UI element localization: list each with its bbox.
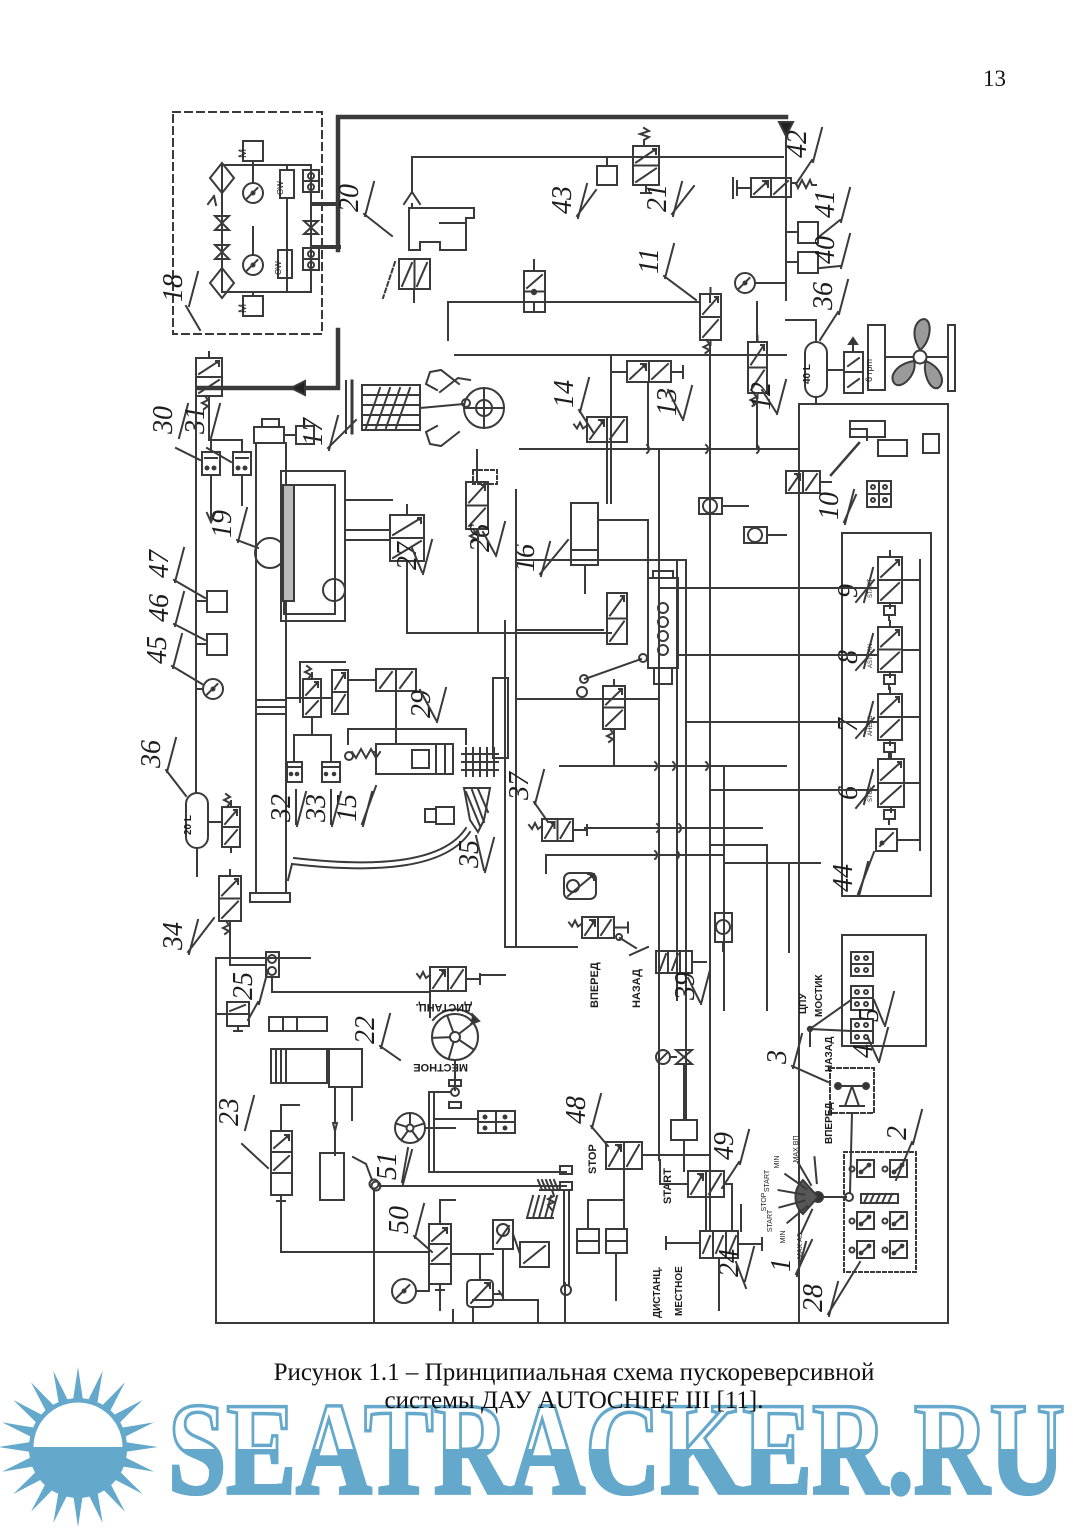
panel 2 switch r1c2 <box>890 1160 907 1177</box>
valve 29b <box>332 670 348 714</box>
solenoid 32 <box>287 762 302 782</box>
svg-text:32: 32 <box>266 794 297 823</box>
handwheel 51 rim <box>395 1113 425 1143</box>
cylinder 19 top cap <box>254 427 284 443</box>
valve column right link <box>919 560 921 850</box>
machine 17 rocker <box>440 378 470 392</box>
handwheel 22 arrow arc <box>433 1009 476 1020</box>
svg-text:21: 21 <box>642 184 673 212</box>
actuator 39 lever <box>620 938 636 948</box>
svg-text:43: 43 <box>547 186 578 214</box>
valve 27 <box>390 515 424 561</box>
valve 23 <box>271 1131 292 1195</box>
wire 27 down <box>407 572 478 633</box>
wire long y355 <box>455 354 786 356</box>
panel 2 switch r2c2 <box>890 1212 907 1229</box>
svg-text:6: 6 <box>833 786 864 800</box>
propeller blade left-bottom <box>892 361 914 385</box>
tachometer transmitter <box>844 352 863 393</box>
machine 17 link rod <box>420 404 464 408</box>
wire 27 to positioner <box>345 529 390 531</box>
bridge box bottom <box>851 1019 873 1043</box>
valve 24 plunger <box>738 1243 762 1245</box>
wire 11 down to bus <box>709 345 711 449</box>
bus vertical x516 <box>515 490 517 947</box>
solenoid 33 <box>322 762 340 782</box>
valve 9 actuator <box>884 606 895 615</box>
spring right of 42 <box>791 180 816 188</box>
wire 30 down arrow <box>210 475 212 520</box>
valve 34 <box>219 876 241 921</box>
actuator 39 body <box>656 951 692 973</box>
svg-text:11: 11 <box>634 248 665 274</box>
starter down rods <box>334 1087 336 1123</box>
cylinder 19 sphere <box>255 538 285 568</box>
linkage rod horizontal <box>429 1171 566 1173</box>
lever 3 dashed box <box>830 1068 874 1113</box>
pilot symbol valve 20 <box>404 192 420 204</box>
cylinder 19 body <box>256 443 286 893</box>
pressure gauge 45 <box>203 679 223 699</box>
thick branch lower left with arrow <box>199 330 338 388</box>
bus vertical x659 <box>658 449 660 1160</box>
valve 21 <box>633 146 659 185</box>
pressure gauge bottom <box>392 1279 416 1303</box>
linkage rod bottom ball <box>561 1285 571 1295</box>
lever 3 shaft down <box>850 1113 852 1193</box>
panel 2 switch r3c1 <box>857 1241 874 1258</box>
starter gear box <box>329 1049 362 1087</box>
machine 17 jaw lower <box>426 426 459 446</box>
starter pinion bar <box>269 1017 327 1031</box>
thick supply line top run <box>338 117 786 250</box>
arrowhead left on branch <box>291 381 305 395</box>
valve 12 <box>748 342 767 393</box>
machine 17 jaw upper <box>426 370 459 390</box>
svg-text:6 rpm: 6 rpm <box>864 359 874 382</box>
svg-text:23: 23 <box>214 1098 245 1126</box>
svg-text:ВПЕРЕД: ВПЕРЕД <box>589 962 601 1008</box>
cylinder 19 top knob <box>262 419 279 427</box>
svg-text:44: 44 <box>828 864 859 892</box>
bus horizontal y863 right <box>724 862 820 864</box>
wire 13 stem <box>647 382 649 449</box>
wire 16 right <box>598 519 648 521</box>
svg-text:40: 40 <box>810 236 841 264</box>
svg-text:19: 19 <box>207 510 238 538</box>
svg-text:34: 34 <box>158 922 189 951</box>
flow regulator <box>564 873 596 899</box>
wire 16 bottom <box>584 565 586 593</box>
panel 2 switch r2c1 <box>857 1212 874 1229</box>
valve 48 STOP <box>606 1142 642 1169</box>
ball valve cluster <box>493 1220 513 1249</box>
wire 29 up <box>299 662 301 702</box>
governor pilot valve upper <box>607 593 627 644</box>
lubricator lower <box>278 250 292 278</box>
svg-text:STOP: STOP <box>761 1192 768 1211</box>
linkage rod vertical right <box>563 1190 565 1285</box>
wire 29 frame <box>348 729 466 744</box>
bus vertical x686 <box>685 560 687 1120</box>
svg-text:47: 47 <box>144 549 175 578</box>
wire gauge link <box>416 1290 429 1292</box>
wheel 22 stem collar <box>449 1080 461 1086</box>
positioner inner <box>284 485 335 614</box>
wire junction block left <box>435 1118 478 1120</box>
svg-text:48: 48 <box>561 1096 592 1124</box>
wire 23 bottom <box>280 1201 282 1215</box>
bus jog y766 <box>655 762 708 770</box>
wire top distribution y157 <box>412 156 783 158</box>
svg-text:36: 36 <box>136 740 167 769</box>
handwheel 22 hub <box>450 1032 460 1042</box>
valve 6 <box>878 759 904 807</box>
svg-text:7: 7 <box>833 717 864 732</box>
svg-text:ДИСТАНЦ.: ДИСТАНЦ. <box>652 1266 663 1318</box>
svg-text:45: 45 <box>142 636 173 664</box>
svg-text:OW: OW <box>274 261 283 275</box>
filter diamond lower <box>210 268 234 298</box>
wire 12 down <box>756 398 758 449</box>
wire rpm to prop <box>885 356 913 358</box>
svg-text:МЕСТНОЕ: МЕСТНОЕ <box>674 1266 685 1316</box>
capsule check x744 <box>744 527 767 543</box>
injector 35 funnel <box>464 788 490 832</box>
svg-text:ЦПУ: ЦПУ <box>798 993 809 1014</box>
watermark lettering <box>168 1375 1065 1522</box>
governor pump body <box>648 578 678 668</box>
wire 14 bottom <box>606 442 608 503</box>
machine 17 guide plate <box>351 381 354 433</box>
pressure regulator bottom <box>467 1280 493 1307</box>
wire valve-b link <box>482 974 505 976</box>
svg-text:9: 9 <box>833 584 864 598</box>
box 29 <box>376 669 416 691</box>
solenoid box 30 <box>202 452 220 475</box>
filter diamond upper <box>210 163 234 193</box>
injector pipe curve inner <box>294 828 466 862</box>
svg-text:40 L: 40 L <box>802 364 813 384</box>
svg-text:20: 20 <box>334 184 365 212</box>
wire 49 links <box>705 1197 707 1231</box>
wire into valve 50 left <box>280 1209 282 1252</box>
governor pump elements <box>658 603 668 613</box>
starter lever <box>353 1157 372 1180</box>
injector pipe curve outer <box>292 832 470 868</box>
svg-text:41: 41 <box>810 190 841 218</box>
box 47 <box>207 591 227 612</box>
valve 49 START <box>688 1171 724 1197</box>
wire 48 box <box>683 1140 685 1171</box>
svg-text:10: 10 <box>814 492 845 520</box>
thick stub to check valves upper <box>313 202 339 206</box>
bus vertical x505 <box>504 621 506 947</box>
panel 2 dotted frame <box>844 1152 916 1272</box>
solenoid box 31 <box>233 452 251 475</box>
wire 11 up <box>709 294 711 302</box>
motor box M top <box>243 141 263 161</box>
handwheel 51 hub <box>407 1125 414 1132</box>
svg-text:16: 16 <box>510 544 541 572</box>
svg-text:ВПЕРЕД: ВПЕРЕД <box>824 1102 835 1144</box>
remote control box frame <box>842 533 931 896</box>
wire x659 lower <box>658 1000 660 1050</box>
thick stub to check valves lower <box>313 245 339 249</box>
wire 48 right to bus <box>642 1154 710 1156</box>
machine 17 camshaft circle <box>464 388 504 428</box>
svg-text:30: 30 <box>148 406 179 435</box>
wheel 22 stem joint <box>451 1088 459 1096</box>
supply arrowhead down <box>779 122 793 136</box>
wall anchor hatch <box>540 1189 558 1191</box>
drain arrow <box>208 196 216 205</box>
svg-text:46: 46 <box>144 594 175 622</box>
rpm indicator box <box>868 325 885 390</box>
valve 29a <box>303 679 321 717</box>
shaft bracket plate <box>948 325 955 391</box>
box above 48 <box>671 1120 697 1140</box>
svg-text:M: M <box>237 304 249 313</box>
spring comb <box>527 1196 533 1218</box>
svg-text:MIN: MIN <box>774 1156 781 1169</box>
bus horizontal y845 right <box>710 844 767 846</box>
injector 35 stem <box>425 809 436 822</box>
console 1 sector <box>795 1180 818 1214</box>
dotted box above 26 <box>473 470 497 484</box>
capsule check x715 <box>715 913 732 942</box>
dashed drain of 20 <box>383 262 395 298</box>
actuator stem left of 42 <box>737 187 751 189</box>
wire boxes48 down <box>615 1253 617 1300</box>
bus jog y855 <box>655 851 679 859</box>
box 40 <box>798 252 818 273</box>
svg-text:49: 49 <box>709 1132 740 1160</box>
governor hub <box>577 687 587 697</box>
wire split to 30 31 <box>209 439 242 441</box>
svg-text:1: 1 <box>766 1258 797 1272</box>
exhaust T of 21 <box>645 185 647 193</box>
exhaust marks 13 <box>613 371 627 373</box>
bus horizontal y855 <box>546 854 722 856</box>
wire 12 up <box>756 302 758 342</box>
box 43 <box>597 166 617 185</box>
wire ball valve down <box>502 1249 504 1300</box>
bridge box top <box>851 952 873 976</box>
svg-text:НАЗАД: НАЗАД <box>824 1037 835 1072</box>
svg-text:51: 51 <box>372 1152 403 1180</box>
valve 11 <box>700 294 721 340</box>
svg-text:START: START <box>767 1209 774 1232</box>
svg-text:МОСТИК: МОСТИК <box>814 974 825 1017</box>
cylinder 19 side box <box>296 426 314 444</box>
wire caps links <box>722 505 748 507</box>
svg-text:14: 14 <box>549 380 580 408</box>
fuel pump 15 piston <box>412 750 429 768</box>
valve 38 <box>582 917 614 938</box>
svg-text:МЕСТНОЕ: МЕСТНОЕ <box>413 1061 468 1073</box>
svg-text:8: 8 <box>833 650 864 664</box>
bottom cluster wires <box>451 1253 493 1255</box>
svg-text:18: 18 <box>158 274 189 302</box>
governor pump foot <box>654 668 672 684</box>
valve 7 <box>878 694 902 740</box>
lubricator OW upper <box>280 170 294 198</box>
capsule check x699 <box>699 498 722 514</box>
check valve pair upper <box>303 170 319 181</box>
positioner circle <box>323 579 345 601</box>
svg-text:START: START <box>764 1169 771 1192</box>
rod end fittings <box>560 1166 572 1174</box>
svg-text:OW: OW <box>276 181 285 195</box>
governor lower valve <box>603 686 625 729</box>
bus jog marks y449 <box>647 445 759 453</box>
throttle phi circle <box>656 1050 670 1064</box>
accumulator 20L <box>186 793 208 848</box>
valve 50 <box>429 1224 451 1284</box>
box 10b <box>878 440 907 456</box>
valve 24 manual rod <box>666 1242 700 1244</box>
lever 3 bar <box>836 1085 868 1087</box>
valve next to accumulator <box>222 807 240 847</box>
wire 23 up <box>280 1105 282 1131</box>
wheel 22 stem <box>454 1060 456 1090</box>
linkage rod vertical left <box>428 1092 430 1172</box>
bus jog y828 <box>657 824 681 832</box>
bus vertical x789 right <box>788 863 790 952</box>
propeller shaft <box>927 356 948 358</box>
wire 26 down then right <box>478 529 611 633</box>
bus horizontal y828 <box>585 827 762 829</box>
positioner wires <box>345 539 390 541</box>
panel 2 switch r1c1 <box>857 1160 874 1177</box>
bus vertical x724 <box>723 766 725 1010</box>
check capsule bottom left <box>266 952 279 977</box>
valve below vpered <box>430 967 466 991</box>
wire 32 33 up <box>293 735 295 762</box>
bus horizontal y449 <box>520 448 798 450</box>
watermark sun white dome <box>34 1403 123 1448</box>
bus vertical x710 <box>709 449 711 1231</box>
wire drop to pilot of 20 <box>411 157 413 192</box>
valve 8 <box>878 627 902 672</box>
air-prep internal piping <box>221 165 223 292</box>
fuel pump 15 rack comb <box>465 748 467 776</box>
wire 26 up <box>476 450 478 482</box>
svg-text:ДИСТАНЦ.: ДИСТАНЦ. <box>416 1001 472 1013</box>
lever 3 pivot <box>845 1086 859 1106</box>
pressure gauge lower <box>243 255 263 275</box>
shutoff valve X lower <box>215 245 229 259</box>
actuator 39 rod <box>692 961 706 963</box>
svg-text:МАХ ВП: МАХ ВП <box>793 1136 800 1163</box>
valve column left links <box>659 587 878 589</box>
svg-text:37: 37 <box>504 771 535 801</box>
handwheel 22 spokes <box>448 1016 454 1032</box>
svg-text:STOP: STOP <box>587 1144 599 1174</box>
svg-text:Рисунок 1.1 – Принципиальная с: Рисунок 1.1 – Принципиальная схема пуско… <box>274 1359 875 1386</box>
cylinder 19 piston band <box>256 700 286 714</box>
motor box M bottom <box>243 296 263 316</box>
valve 6 actuator <box>884 810 895 819</box>
svg-text:20 L: 20 L <box>183 815 194 835</box>
pilot valve of 20 <box>399 259 430 289</box>
contact block 10 <box>867 481 891 507</box>
box below 48 right <box>606 1229 627 1253</box>
junction block near 51 <box>478 1111 515 1133</box>
pressure gauge upper <box>243 183 263 203</box>
valve 13 <box>627 361 671 382</box>
panel 2 slider <box>861 1194 898 1203</box>
bus vertical x767 right <box>766 845 768 1010</box>
wire 24 region <box>740 1205 742 1231</box>
wire x538 to boundary <box>537 1300 539 1323</box>
propeller blade top <box>914 319 929 350</box>
box 10c small <box>923 434 939 453</box>
valve 9 <box>878 557 902 603</box>
bus horizontal y766 <box>560 765 786 767</box>
wire elbow down x448 <box>447 302 449 340</box>
svg-text:36: 36 <box>808 282 839 311</box>
wire throttle down <box>683 1064 685 1120</box>
wire main vertical x786 <box>785 136 787 300</box>
wire 50 up <box>439 1200 441 1224</box>
wire governor down <box>613 734 615 766</box>
accumulator 40L <box>805 342 827 397</box>
wire capsule to starter <box>271 977 273 992</box>
throttle X <box>676 1050 692 1064</box>
wire bottom horizontal y1300 <box>473 1299 538 1301</box>
bus horizontal y560 <box>516 559 686 561</box>
machine 17 piston block <box>362 385 420 430</box>
console 1 hub <box>813 1192 823 1202</box>
watermark sun rays <box>0 1367 158 1527</box>
wire 10 links <box>820 481 831 483</box>
wire 25 <box>216 1013 227 1015</box>
wire capsule down <box>815 397 817 404</box>
console 1 handle <box>823 1196 846 1198</box>
panel 2 switch r3c2 <box>890 1241 907 1258</box>
svg-text:33: 33 <box>301 794 332 823</box>
injector 35 holder <box>436 807 454 824</box>
svg-text:50: 50 <box>384 1206 415 1234</box>
lever 10 <box>831 443 859 475</box>
wire accumulator down <box>196 848 198 876</box>
svg-text:13: 13 <box>983 66 1006 91</box>
svg-text:НАЗАД: НАЗАД <box>631 969 643 1008</box>
bridge box mid <box>851 986 873 1010</box>
tall rect below 16 <box>493 678 508 758</box>
valve 7 actuator <box>884 743 895 752</box>
propeller blade right-bottom <box>925 361 942 388</box>
valve 25 <box>227 1002 249 1026</box>
anchor spring <box>548 1190 554 1210</box>
wire 49 right down <box>724 1183 732 1185</box>
left rail x196 <box>195 388 197 788</box>
wire accumulator link <box>208 821 222 823</box>
bus vertical x677 <box>676 560 678 1000</box>
air-prep unit 18 dashed enclosure <box>173 112 322 334</box>
wire 34 to bottom cluster <box>229 921 231 965</box>
wire rod bottom <box>564 1283 566 1323</box>
outer boundary left segment <box>798 404 800 1323</box>
handwheel 51 spokes <box>409 1114 411 1125</box>
handwheel 22 rim <box>432 1014 478 1060</box>
valve 42 <box>751 178 791 197</box>
wheel 51 stem <box>425 1127 455 1129</box>
junction dot bridge <box>808 1027 812 1031</box>
governor lever <box>585 659 641 679</box>
